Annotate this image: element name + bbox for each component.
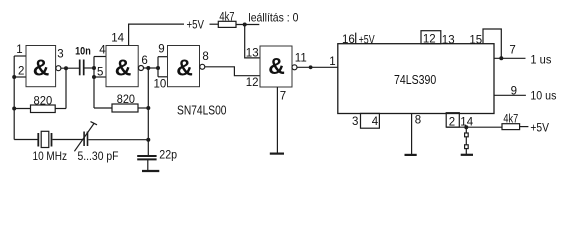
svg-text:13: 13 [442, 34, 455, 46]
svg-text:22p: 22p [159, 148, 177, 162]
node D dot out [146, 66, 150, 70]
crystal X1 wire left [14, 139, 37, 141]
svg-text:&: & [33, 55, 50, 81]
svg-text:leállítás : 0: leállítás : 0 [248, 10, 298, 24]
svg-text:7: 7 [280, 91, 286, 103]
gate U1C output bubble [200, 64, 205, 69]
svg-text:10 MHz: 10 MHz [33, 149, 68, 163]
trimmer capacitor C2 plates [84, 132, 87, 147]
U1C rail dot [156, 66, 160, 70]
wire pin10 [158, 76, 168, 78]
svg-text:+5V: +5V [530, 123, 549, 135]
pin8 wire to ground [411, 114, 413, 155]
resistor R3 4k7 [218, 21, 236, 27]
IC U2 74LS390 box [338, 44, 494, 114]
svg-text:10: 10 [154, 79, 167, 91]
node D dot R2 [146, 106, 150, 110]
pin12 box [421, 31, 441, 44]
svg-text:10n: 10n [75, 45, 91, 57]
pin number labels [16, 33, 517, 129]
svg-text:SN74LS00: SN74LS00 [177, 102, 227, 117]
svg-text:10 us: 10 us [530, 91, 556, 103]
wire pin13 [245, 25, 260, 58]
trimmer arrow tick [91, 122, 98, 125]
wire crystal to trimmer [53, 139, 84, 141]
svg-text:4k7: 4k7 [219, 12, 234, 24]
svg-text:14: 14 [111, 33, 124, 45]
wire pin4 [94, 56, 106, 58]
svg-text:14: 14 [460, 117, 473, 129]
wire +5V to R3 [210, 23, 219, 25]
trimmer arrow [74, 123, 94, 151]
wire R2 left [94, 107, 112, 109]
crystal X1 body [41, 131, 49, 147]
svg-text:4: 4 [99, 45, 106, 57]
svg-text:&: & [115, 55, 132, 81]
capacitor C3 22p plates [137, 156, 156, 159]
pin13 node dot [243, 23, 247, 27]
wire R3 to pin13 node [236, 24, 259, 26]
node B junction dot [64, 66, 68, 70]
wire C1 to node C [85, 67, 95, 69]
svg-text:+5V: +5V [359, 32, 375, 46]
node C dot cap [92, 66, 96, 70]
node C rail [93, 57, 95, 109]
jumper pad 2 [465, 145, 469, 149]
svg-text:3: 3 [57, 49, 63, 61]
pin7/15 dot [499, 56, 503, 60]
svg-text:3: 3 [352, 116, 358, 128]
wire R1 right [55, 108, 66, 110]
resistor R1 820 [31, 105, 56, 113]
svg-text:820: 820 [117, 92, 135, 106]
wire pin1 [14, 55, 25, 57]
resistor R2 820 [112, 104, 138, 112]
wire pins 2,14 to R4 [446, 126, 502, 128]
svg-text:9: 9 [511, 85, 517, 97]
pin4 box [361, 113, 380, 128]
node A dot R1 [12, 107, 16, 111]
gate U1A output bubble [56, 66, 61, 71]
gate U1D output bubble [292, 65, 297, 70]
wire R1 left [14, 108, 30, 110]
svg-text:15: 15 [469, 35, 482, 47]
svg-text:&: & [176, 55, 193, 81]
wire pin5 [94, 76, 106, 78]
wire R2 right [138, 107, 148, 109]
svg-text:820: 820 [34, 94, 53, 108]
wire pin2 [14, 76, 25, 78]
wire U1A output [61, 67, 79, 69]
ground pin8 [405, 154, 417, 156]
svg-text:1: 1 [16, 44, 22, 56]
svg-text:13: 13 [246, 48, 259, 60]
svg-text:&: & [268, 53, 285, 79]
wire U1D output to IC pin1 [297, 66, 338, 68]
wire pin14 Vcc riser [129, 24, 184, 45]
ground U1D [270, 153, 284, 155]
gate U1C input rail [157, 57, 159, 77]
svg-text:1 us: 1 us [530, 55, 551, 67]
gate U1B output bubble [139, 66, 144, 71]
node A dot pin2 [12, 75, 16, 79]
ground jumper [461, 154, 473, 156]
svg-text:6: 6 [141, 55, 147, 67]
svg-text:74LS390: 74LS390 [394, 72, 436, 87]
wire trimmer to node D [88, 139, 148, 141]
svg-text:8: 8 [202, 51, 208, 63]
node D rail down [147, 68, 149, 155]
svg-text:9: 9 [158, 44, 164, 56]
gate U1A box [26, 46, 56, 87]
node D dot crystal [146, 138, 150, 142]
pin16 stub [355, 33, 357, 44]
svg-text:+5V: +5V [187, 18, 205, 32]
svg-text:4: 4 [372, 116, 379, 128]
svg-text:4k7: 4k7 [503, 113, 518, 125]
wire pin9 [158, 56, 168, 58]
svg-text:2: 2 [18, 66, 24, 78]
wire U1D pin7 down [276, 87, 278, 153]
pin2 box [446, 113, 459, 127]
ground C3 [142, 170, 159, 172]
wire node B down [65, 68, 67, 108]
svg-text:1: 1 [329, 56, 335, 68]
pin9 wire [494, 94, 526, 96]
svg-text:11: 11 [295, 53, 307, 65]
output wire dot [309, 65, 313, 69]
gate U1B box [106, 46, 138, 87]
wire R4 to +5V [520, 126, 529, 128]
pins2/14 junction dot [464, 125, 468, 129]
svg-text:7: 7 [509, 44, 515, 56]
pin7 wire [494, 57, 526, 59]
crystal X1 plates [38, 133, 51, 147]
pin15 wire loop [483, 29, 501, 58]
node A rail [13, 56, 15, 140]
gate U1C box [168, 46, 200, 87]
svg-text:2: 2 [449, 117, 455, 129]
resistor R4 4k7 [502, 124, 520, 130]
wire C3 to ground [147, 159, 149, 170]
svg-text:16: 16 [342, 34, 355, 46]
svg-text:8: 8 [415, 115, 421, 127]
gate U1D box [260, 46, 292, 87]
svg-text:12: 12 [423, 34, 436, 46]
wire U1C output to pin12 [205, 67, 260, 76]
node C dot pin5 [92, 75, 96, 79]
svg-text:12: 12 [246, 77, 259, 89]
jumper wire down [465, 127, 467, 154]
svg-text:5...30 pF: 5...30 pF [78, 149, 119, 163]
svg-text:5: 5 [97, 67, 103, 79]
jumper pad 1 [465, 133, 469, 137]
capacitor C1 10n plates [80, 60, 84, 76]
wire U1B output [144, 67, 159, 69]
